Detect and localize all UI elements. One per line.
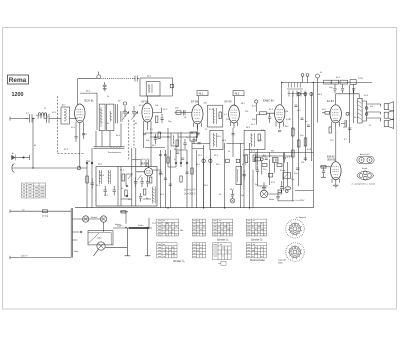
resistor in box xyxy=(122,174,125,181)
tube V5 cathode xyxy=(232,120,236,122)
svg-text:0,5M: 0,5M xyxy=(286,119,291,121)
heater wires vertical xyxy=(204,158,211,208)
contacts xyxy=(186,162,188,164)
tube V4 grid xyxy=(194,110,201,119)
svg-text:Schalter S₃: Schalter S₃ xyxy=(173,260,185,263)
wire right of LP4 xyxy=(268,181,284,194)
svg-text:Ferritantenne: Ferritantenne xyxy=(108,151,122,154)
IF can 4 below xyxy=(210,130,223,149)
tube V4 pins xyxy=(194,123,202,129)
tube V6 cathode xyxy=(278,119,282,121)
extend AF verticals xyxy=(293,161,299,201)
oval cap xyxy=(285,187,291,190)
dashed AVC wire xyxy=(101,78,134,80)
wire net vertical xyxy=(148,218,150,228)
svg-text:U₂=245V: U₂=245V xyxy=(296,200,305,202)
svg-text:Rema: Rema xyxy=(9,77,27,84)
wires from V3 to can xyxy=(153,108,162,113)
tube V3 grid xyxy=(144,109,151,118)
svg-text:ECC 85: ECC 85 xyxy=(141,164,149,166)
coil box L2 xyxy=(61,107,70,124)
extra tiny labels batch2 xyxy=(52,109,372,197)
ferrite antenna rod xyxy=(94,147,125,149)
tube V8 envelope xyxy=(331,162,342,180)
mains wire left xyxy=(10,210,72,212)
coil can L4 xyxy=(107,104,114,131)
coil in can 3 xyxy=(214,108,217,124)
wire top xyxy=(335,130,337,162)
dial cord diagonal xyxy=(89,233,100,243)
svg-text:Klang: Klang xyxy=(280,170,285,172)
wire from dial box to right xyxy=(113,227,152,229)
tube V5 pins xyxy=(230,122,237,128)
tube V6 envelope xyxy=(275,105,285,123)
box corner note xyxy=(295,190,313,192)
vertical wires xyxy=(293,92,312,161)
resistor R24 xyxy=(278,190,281,192)
vertical wire to tube A xyxy=(77,79,79,105)
cap C32 xyxy=(283,153,286,163)
tube V5 grid xyxy=(231,110,238,118)
dashed tuning link mid xyxy=(243,150,245,190)
bottom-left heavy vertical contacts xyxy=(72,232,79,240)
wire nf bus 1 xyxy=(250,152,314,154)
node dot xyxy=(23,157,24,158)
caps in UKW xyxy=(134,176,150,187)
terminal circles xyxy=(202,159,205,162)
cap above lamp xyxy=(231,190,234,198)
dropper resistor R big xyxy=(236,166,242,184)
switch contacts xyxy=(86,162,88,164)
svg-text:Anschluß f.: Anschluß f. xyxy=(360,153,371,156)
svg-text:1200: 1200 xyxy=(12,92,24,98)
wire to band coil box xyxy=(53,118,61,120)
svg-text:5M: 5M xyxy=(271,151,274,153)
terminals xyxy=(365,107,368,110)
svg-text:40.5 0,25: 40.5 0,25 xyxy=(141,159,150,161)
main bottom bus xyxy=(75,207,313,209)
switch columns mid verticals xyxy=(176,150,187,208)
coil L1 xyxy=(38,113,47,119)
pilot lamp LP3 xyxy=(230,199,234,203)
coupling components x174-188 xyxy=(175,112,192,114)
resistor right of det can xyxy=(253,155,255,162)
electrolytic cap 2 xyxy=(145,228,151,256)
IF can BF1 inner xyxy=(146,82,160,96)
resistor xyxy=(176,140,178,147)
wire bus drop xyxy=(151,227,153,229)
socket S1 body xyxy=(289,223,300,234)
terminal dot xyxy=(9,210,11,213)
vertical wires under V5 xyxy=(225,128,250,208)
svg-text:Netz: Netz xyxy=(74,250,79,253)
dashed gang link xyxy=(128,120,130,160)
resistor R xyxy=(260,112,267,115)
node circle (Ph) xyxy=(255,100,258,103)
trimmer capacitor CT1 xyxy=(123,102,126,105)
resistor R21 xyxy=(255,158,261,161)
tube V2 cathode xyxy=(78,120,82,122)
cap cluster right xyxy=(193,137,201,144)
table D xyxy=(246,219,266,236)
svg-text:2. Lautsprecher u. Zusatz: 2. Lautsprecher u. Zusatz xyxy=(352,182,376,185)
small box xyxy=(268,173,273,177)
mid cluster x164-186 more xyxy=(176,152,184,159)
wires xyxy=(168,128,181,167)
tube V7 envelope xyxy=(330,105,341,123)
resistor volume pot xyxy=(292,128,295,136)
tube V3 envelope xyxy=(142,103,153,122)
cap above LP4 xyxy=(262,182,266,190)
nf labels xyxy=(251,151,294,185)
cap C31 xyxy=(265,153,270,165)
resistor in det can xyxy=(258,134,260,141)
capacitor C2 xyxy=(44,114,53,123)
mains wire bottom xyxy=(10,257,71,259)
tube V7 cathode xyxy=(333,120,338,122)
heater line horizontal xyxy=(168,149,204,168)
node circle (antenna socket) xyxy=(97,75,101,79)
text block rows xyxy=(141,159,150,168)
tube V7 pins xyxy=(332,122,340,130)
svg-text:46.2: 46.2 xyxy=(199,93,204,96)
dashed screen corner xyxy=(58,153,86,155)
grid resistor left xyxy=(320,166,331,168)
socket S1 pins xyxy=(288,222,302,237)
top cap box C stage xyxy=(197,91,208,96)
wire from dial to lamp area xyxy=(120,212,128,224)
caps between columns xyxy=(295,105,311,126)
resistor under V3 area xyxy=(158,132,160,139)
wire drops from coil pack xyxy=(96,123,121,146)
stage box outline xyxy=(80,93,97,130)
table A xyxy=(157,219,179,236)
fuse box on mains xyxy=(43,210,48,213)
speaker LS1 xyxy=(384,104,388,110)
wire down from antenna line xyxy=(32,119,34,169)
svg-text:EABC 80: EABC 80 xyxy=(263,99,274,103)
tube V1 ECC85 envelope xyxy=(145,168,153,176)
svg-text:EM 80: EM 80 xyxy=(327,154,335,158)
svg-text:m. Netzteil: m. Netzteil xyxy=(296,216,306,219)
tube V5 envelope xyxy=(229,105,240,123)
svg-text:M: M xyxy=(34,145,36,147)
capacitor C4 in series xyxy=(134,76,139,82)
terminal xyxy=(346,112,349,115)
extra labels row y136 xyxy=(12,115,305,201)
OT core xyxy=(358,98,362,123)
svg-text:0,5M: 0,5M xyxy=(307,149,312,151)
socket S2 outer label ring xyxy=(286,243,305,262)
tube V4 envelope xyxy=(192,105,203,124)
Rema logo box xyxy=(8,75,29,84)
vertical from rail left xyxy=(303,77,308,83)
socket S1 outer label ring xyxy=(286,220,305,239)
wire bottom nf xyxy=(278,200,294,202)
svg-text:(EM 85): (EM 85) xyxy=(327,158,336,162)
wire top cap xyxy=(234,96,236,106)
capacitor C3 to ground xyxy=(103,82,107,91)
ballast resistor on wire xyxy=(129,227,150,229)
svg-text:46.3: 46.3 xyxy=(235,93,240,96)
vertical wires under C xyxy=(192,124,210,208)
dial lamp LP2 xyxy=(100,216,106,222)
table B xyxy=(192,219,206,236)
terminal circle on ground bus xyxy=(77,166,81,170)
svg-text:U₀ = 6,3 V~: U₀ = 6,3 V~ xyxy=(184,189,197,192)
wire pair xyxy=(115,104,117,123)
coil can L3 xyxy=(99,104,105,131)
dashed link line xyxy=(57,96,59,153)
coil symbol inside xyxy=(149,84,152,93)
resistor in can3 xyxy=(219,112,221,119)
UKW osc coil xyxy=(153,187,155,204)
wire from lamp down-left xyxy=(94,249,99,256)
long vertical wires mid xyxy=(160,150,170,208)
IF can BF1 outer xyxy=(140,78,173,96)
UKW interior extra resistors xyxy=(125,190,127,196)
svg-text:Wellenschalter: Wellenschalter xyxy=(250,259,265,262)
wire lamp to dial box xyxy=(103,222,105,232)
cap ticks row xyxy=(287,83,303,90)
svg-text:1n: 1n xyxy=(305,121,307,123)
socket S2 body xyxy=(289,246,300,257)
svg-text:10n: 10n xyxy=(263,169,266,171)
anode wire to OT xyxy=(336,94,360,105)
contact squares xyxy=(226,159,230,163)
svg-text:1200: 1200 xyxy=(97,237,103,239)
cathode marks xyxy=(333,185,339,188)
vert wires detector xyxy=(253,150,258,208)
UKW interior wires xyxy=(121,160,151,200)
cap xyxy=(256,166,259,176)
long vertical right xyxy=(313,83,317,208)
cap bottom xyxy=(348,128,351,275)
wires in UKW box xyxy=(132,148,161,206)
coil L9 xyxy=(273,158,279,163)
table H xyxy=(246,243,266,258)
ratio det can outer xyxy=(244,130,265,149)
nf verticals xyxy=(256,153,288,191)
tube V7 grid xyxy=(332,110,339,119)
svg-text:Lage der: Lage der xyxy=(278,259,287,262)
svg-text:EL 84: EL 84 xyxy=(327,99,334,103)
small circles contacts in UKW xyxy=(126,185,128,187)
resistor columns x286-312 xyxy=(292,150,295,157)
earth symbol arc xyxy=(12,164,15,173)
coils xyxy=(251,133,255,147)
filter component xyxy=(350,80,356,85)
wire nf bus 2 xyxy=(256,155,292,157)
tube V6 pins xyxy=(276,122,283,129)
vertical under tube A xyxy=(76,126,84,169)
contacts xyxy=(175,162,177,164)
wire lamp row xyxy=(72,218,103,220)
caps from rail down xyxy=(333,84,355,93)
svg-text:EF 89: EF 89 xyxy=(191,99,198,103)
top cap box D stage xyxy=(233,91,244,96)
tube V2 ECH81 envelope xyxy=(75,104,85,123)
voltage table xyxy=(22,183,46,198)
cap bank xyxy=(289,91,305,97)
power area extra verticals xyxy=(197,150,268,208)
svg-text:50µF+: 50µF+ xyxy=(138,225,145,227)
capacitor C7 xyxy=(91,178,94,189)
caps on AF columns xyxy=(296,158,307,169)
cap right xyxy=(243,170,246,180)
dial lamp LP4 xyxy=(260,190,268,198)
wire top bus xyxy=(78,78,98,80)
more tiny caps under tube row xyxy=(143,131,281,135)
wire antenna input xyxy=(10,118,28,120)
table E xyxy=(157,243,177,258)
svg-text:S₄: S₄ xyxy=(174,159,176,161)
grid stopper left xyxy=(325,112,330,115)
socket S2 center xyxy=(293,250,297,254)
volume pot w/ arrow xyxy=(283,173,291,179)
svg-text:befest.: befest. xyxy=(115,223,122,226)
connector D2 body xyxy=(357,171,374,179)
svg-text:275V: 275V xyxy=(358,78,364,80)
small box under tube C xyxy=(190,132,197,141)
table C xyxy=(213,219,233,236)
choke/resistor boxes on rail xyxy=(324,80,332,84)
capacitor xyxy=(183,139,186,149)
wire aux antenna xyxy=(16,157,30,159)
wire anode up xyxy=(281,83,283,105)
resistor R23 xyxy=(277,164,282,167)
coil L5 xyxy=(121,111,123,122)
small caps under tube A xyxy=(75,134,86,142)
table G xyxy=(213,243,232,260)
ground bus wire left xyxy=(12,167,88,169)
wire segs under IF row xyxy=(192,143,244,145)
terminal tick xyxy=(29,155,31,160)
UKW box right-part details xyxy=(144,189,146,195)
terminal circles top xyxy=(297,93,300,96)
junction dots xyxy=(150,132,197,137)
svg-text:EF 89: EF 89 xyxy=(225,100,232,104)
tube V8 pins xyxy=(332,179,340,186)
svg-text:ECH 81: ECH 81 xyxy=(85,99,95,103)
svg-text:1M: 1M xyxy=(285,111,288,113)
tube V6 grid xyxy=(277,110,283,118)
small components under V3 xyxy=(156,116,158,123)
UKW inner divider xyxy=(117,167,119,207)
wires xyxy=(256,103,274,125)
dial scale box xyxy=(88,231,113,245)
svg-text:4Ω: 4Ω xyxy=(370,106,373,108)
speaker LS2 xyxy=(384,112,388,118)
cap C33 xyxy=(276,192,279,201)
wire B+ rail xyxy=(282,82,372,84)
UKW caps xyxy=(104,186,116,195)
wires vertical xyxy=(87,148,92,208)
table F xyxy=(192,243,206,258)
circle below xyxy=(286,190,289,193)
resistor xyxy=(180,176,182,182)
wire lamp right xyxy=(105,247,127,249)
vertical drops under V3 xyxy=(144,126,152,167)
antenna terminal A1 xyxy=(9,117,11,121)
socket S1 center xyxy=(293,227,297,231)
IF can 3 outer xyxy=(208,105,223,127)
svg-text:Skala: Skala xyxy=(269,199,275,201)
caps xyxy=(268,113,271,123)
svg-text:Schalter S₂: Schalter S₂ xyxy=(251,238,263,241)
dial drive lamp xyxy=(97,242,105,250)
tube V3 cathode xyxy=(145,119,149,121)
antenna symbol (aux) xyxy=(12,155,16,161)
svg-text:20k: 20k xyxy=(261,130,264,132)
tube V1 internals xyxy=(146,170,151,174)
svg-text:Stifte: Stifte xyxy=(278,261,284,264)
dial lamp LP1 xyxy=(83,216,89,222)
table G symbol xyxy=(221,261,226,265)
wire stubs at box top xyxy=(141,160,146,167)
socket S2 pins xyxy=(288,245,302,260)
capacitor C1 xyxy=(26,114,35,123)
tube V4 cathode xyxy=(195,120,199,122)
cathode resistor xyxy=(329,127,331,133)
resistor R3 xyxy=(86,176,89,183)
svg-text:Schalter S₁: Schalter S₁ xyxy=(217,238,229,241)
speaker wires xyxy=(367,104,381,122)
tube V2 internal grid xyxy=(77,110,84,118)
tube V8 grid xyxy=(333,167,340,175)
svg-text:220 V~: 220 V~ xyxy=(21,256,29,258)
left caps EM80 xyxy=(321,167,326,178)
svg-text:Tonab.: Tonab. xyxy=(362,168,369,170)
svg-text:U₁ = 200 V: U₁ = 200 V xyxy=(184,193,196,196)
caps on switch columns xyxy=(159,172,189,185)
resistor R22 xyxy=(262,164,267,167)
tube V8 cathode xyxy=(334,176,338,178)
tube V3 pins xyxy=(144,121,152,130)
terminal on can xyxy=(170,84,173,87)
speaker LS3 xyxy=(384,121,388,127)
wire top cap xyxy=(198,96,200,106)
wire can to tube B xyxy=(147,96,149,104)
svg-text:EF 89: EF 89 xyxy=(142,99,149,103)
terminal circle xyxy=(260,158,263,161)
if bus wires xyxy=(145,133,200,148)
neg feedback wire xyxy=(350,85,354,143)
UKW box outline xyxy=(96,167,157,207)
svg-text:25n: 25n xyxy=(291,179,294,181)
capacitor xyxy=(154,134,157,144)
connector D1 body xyxy=(357,156,374,163)
mains cable thick xyxy=(71,208,72,258)
trimmer capacitor CT2 xyxy=(132,106,137,120)
vertical resistor xyxy=(245,155,248,163)
UKW trimmer arrows xyxy=(128,174,142,180)
wire from L2 to grid network xyxy=(70,118,78,120)
electrolytic cap 1 xyxy=(125,228,131,256)
fuse Si xyxy=(316,74,320,78)
UKW coil 1 xyxy=(100,170,102,184)
switch box xyxy=(171,133,178,146)
svg-text:Skalenl.: Skalenl. xyxy=(91,217,99,219)
table cell marks xyxy=(158,221,265,257)
UKW coil 2 xyxy=(109,170,111,184)
svg-text:20 mg: 20 mg xyxy=(42,216,49,218)
OT secondary wires xyxy=(362,101,367,121)
tube V2 pins xyxy=(76,122,84,129)
